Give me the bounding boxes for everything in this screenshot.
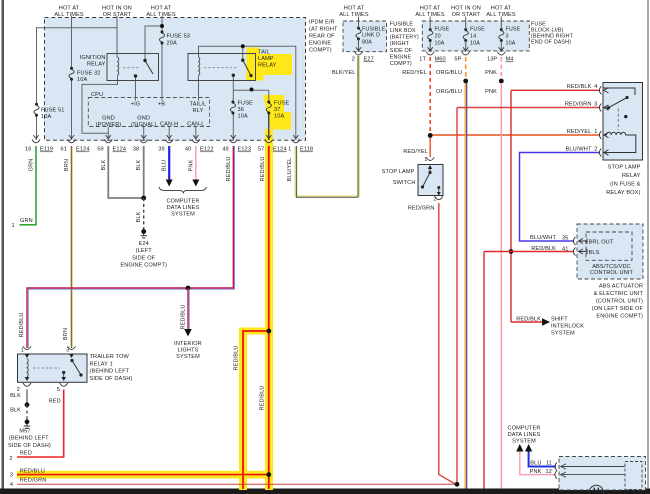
node M57 splice <box>25 402 30 407</box>
svg-text:61: 61 <box>61 147 67 153</box>
svg-text:E119: E119 <box>40 147 53 153</box>
wire BRN pin61 to trailer relay pin3 <box>71 146 73 348</box>
svg-text:INTERLOCK: INTERLOCK <box>551 324 584 330</box>
svg-text:10A: 10A <box>470 41 480 47</box>
svg-text:ALL TIMES: ALL TIMES <box>54 12 84 18</box>
ground M57 <box>24 424 30 428</box>
highlight wire RED/BLU left vertical <box>239 328 273 491</box>
svg-text:SIDE OF DASH): SIDE OF DASH) <box>90 376 133 382</box>
fuse block J/B box <box>422 21 529 51</box>
node fuse53 top junction <box>160 24 164 28</box>
svg-text:SYSTEM: SYSTEM <box>171 212 195 218</box>
svg-text:E118: E118 <box>300 147 313 153</box>
ignition relay coil <box>118 57 119 75</box>
svg-text:E124: E124 <box>113 147 127 153</box>
highlight TAIL LAMP RELAY <box>246 48 292 81</box>
node ORG/BLU splice <box>463 79 468 84</box>
wire hot1 feed to fuse 32 <box>71 16 73 68</box>
ignition relay dashed link <box>123 67 140 69</box>
svg-text:COMPT): COMPT) <box>309 48 332 54</box>
svg-text:SYSTEM: SYSTEM <box>176 354 200 360</box>
wire RED/BLU pin57 red core <box>268 146 270 489</box>
svg-text:LIGHTS: LIGHTS <box>178 348 199 354</box>
fuse F3 <box>499 28 504 42</box>
svg-text:SIDE OF: SIDE OF <box>132 255 156 261</box>
svg-text:16: 16 <box>25 147 31 153</box>
svg-text:(BATTERY): (BATTERY) <box>390 35 419 41</box>
wire branch to ignition relay contact <box>145 26 162 60</box>
svg-text:BLU/WHT: BLU/WHT <box>565 147 591 153</box>
svg-text:13P: 13P <box>487 57 497 63</box>
relay coil horizontal <box>603 132 636 152</box>
svg-text:(ON LEFT SIDE OF: (ON LEFT SIDE OF <box>592 306 644 312</box>
svg-text:FUSE 51: FUSE 51 <box>41 108 65 114</box>
svg-text:CAN-H: CAN-H <box>160 121 178 127</box>
svg-text:TAIL/L: TAIL/L <box>190 102 207 108</box>
wire tail coil return to TAIL/L RLY <box>198 76 200 101</box>
svg-text:3: 3 <box>66 348 69 354</box>
wire BLK pin38 <box>143 146 145 198</box>
svg-text:+IG: +IG <box>131 102 141 108</box>
trailer relay switch <box>62 359 82 378</box>
svg-text:ENGINE: ENGINE <box>390 54 412 60</box>
svg-text:37: 37 <box>274 107 280 113</box>
svg-text:PNK: PNK <box>485 70 497 76</box>
svg-text:RED/YEL: RED/YEL <box>403 149 428 155</box>
wire BLU pin39 CAN-H <box>168 146 170 181</box>
svg-text:FUSIBLE: FUSIBLE <box>390 21 414 27</box>
wire ignition switch output to +IG <box>135 76 137 101</box>
right window border <box>647 0 649 490</box>
svg-text:ENGINE COMPT): ENGINE COMPT) <box>596 314 643 320</box>
svg-text:BLU/YEL: BLU/YEL <box>287 158 293 182</box>
relay dashed link <box>617 109 619 131</box>
svg-text:FUSE: FUSE <box>274 101 290 107</box>
wire RED/GRN from stop switch pin2 <box>439 203 456 484</box>
left window border <box>2 0 5 490</box>
G1: IPDM internals <box>37 16 296 140</box>
node PNK splice <box>499 79 504 84</box>
svg-text:BLK: BLK <box>136 159 142 170</box>
tail lamp relay U2 box <box>188 54 256 81</box>
svg-text:RED/BLU: RED/BLU <box>181 304 187 329</box>
wire RED/BLK pin41 horizontal <box>484 251 574 253</box>
svg-text:RED/GRN: RED/GRN <box>408 206 435 212</box>
svg-text:IGNITION: IGNITION <box>80 55 106 61</box>
wire fuse14 stubs <box>465 17 467 53</box>
trailer relay coil <box>25 354 30 358</box>
wire fuse53 to +B <box>161 44 163 101</box>
stop lamp relay U3 box <box>603 83 643 161</box>
wire fuse51 to pin 16 <box>36 116 38 141</box>
combination meter internal arrows <box>561 467 626 475</box>
svg-text:20A: 20A <box>167 41 177 47</box>
fuse F53 <box>159 31 164 45</box>
stop switch pin1 connector <box>426 157 434 160</box>
svg-text:FUSE: FUSE <box>470 27 485 33</box>
svg-text:FUSE: FUSE <box>506 27 521 33</box>
svg-text:5P: 5P <box>454 57 461 63</box>
wire fuse32 to pin 61 <box>71 80 73 140</box>
wire PNK solid down <box>500 83 502 489</box>
svg-text:BLS: BLS <box>589 250 600 256</box>
svg-text:1: 1 <box>424 157 427 163</box>
fuse F51 <box>34 103 39 117</box>
svg-text:RED/YEL: RED/YEL <box>402 70 427 76</box>
wire tail switch output to fuse row <box>232 75 234 90</box>
svg-text:BLK: BLK <box>101 159 107 170</box>
svg-text:LINK BOX: LINK BOX <box>390 28 416 34</box>
wire PNK combination meter pin12 <box>520 451 556 475</box>
fuse F32 <box>69 67 74 81</box>
svg-text:57: 57 <box>258 147 264 153</box>
svg-text:2: 2 <box>433 197 436 203</box>
tail lamp relay coil <box>199 57 200 75</box>
trailer relay pin connectors <box>23 346 31 349</box>
fuse F14 <box>463 28 468 42</box>
svg-text:COMPT): COMPT) <box>390 61 412 67</box>
svg-text:GND: GND <box>102 116 115 122</box>
svg-text:2: 2 <box>352 57 355 63</box>
svg-text:RED/GRN: RED/GRN <box>565 102 592 108</box>
wire ORG/BLU dashed from 5P <box>465 57 467 80</box>
wire BLU/WHT from relay pin2 <box>520 153 601 242</box>
svg-text:12: 12 <box>546 469 552 475</box>
wire fuse3 stubs <box>500 17 502 53</box>
svg-text:BRN: BRN <box>63 328 69 340</box>
svg-text:10A: 10A <box>238 114 248 120</box>
svg-text:GRN: GRN <box>29 159 35 172</box>
svg-text:E123: E123 <box>238 147 252 153</box>
svg-text:(IN FUSE &: (IN FUSE & <box>610 182 641 188</box>
arrow CAN-L down <box>192 180 199 187</box>
trailer relay dashed link <box>33 367 60 369</box>
svg-text:(LEFT: (LEFT <box>136 248 153 254</box>
svg-text:39: 39 <box>158 147 164 153</box>
svg-text:40: 40 <box>185 147 191 153</box>
svg-text:IPDM E/R: IPDM E/R <box>309 20 335 26</box>
wire RED from trailer pin5 <box>17 390 64 458</box>
svg-text:2: 2 <box>594 147 597 153</box>
svg-text:1: 1 <box>288 147 291 153</box>
svg-text:DATA LINES: DATA LINES <box>167 205 200 211</box>
svg-text:PNK: PNK <box>530 469 542 475</box>
svg-text:14: 14 <box>470 34 476 40</box>
arrow PNK up <box>516 444 523 452</box>
svg-text:ENGINE COMPT): ENGINE COMPT) <box>120 262 167 268</box>
combination meter lamp symbol <box>589 485 603 494</box>
svg-text:STOP LAMP: STOP LAMP <box>382 169 415 175</box>
stop lamp relay internals <box>603 88 636 153</box>
svg-text:SWITCH: SWITCH <box>393 180 416 186</box>
svg-text:OR START: OR START <box>452 12 481 18</box>
wire RED/BLU left branch red core <box>243 331 269 489</box>
wire fuse37 stubs <box>268 90 270 140</box>
fuse F36 <box>230 101 235 115</box>
svg-text:RELAY 1: RELAY 1 <box>90 361 113 367</box>
stop relay connectors <box>599 86 608 94</box>
ABS connectors <box>573 237 587 245</box>
svg-text:TRAILER TOW: TRAILER TOW <box>90 354 130 360</box>
svg-text:RLY: RLY <box>193 108 204 114</box>
svg-text:RELAY BOX): RELAY BOX) <box>606 190 640 196</box>
svg-text:2: 2 <box>9 456 12 462</box>
svg-text:RED/BLU: RED/BLU <box>20 468 45 474</box>
svg-text:RED/BLU: RED/BLU <box>226 156 232 181</box>
svg-text:STOP LAMP: STOP LAMP <box>608 164 641 170</box>
svg-text:ALL TIMES: ALL TIMES <box>415 12 445 18</box>
svg-text:COMPUTER: COMPUTER <box>508 426 541 432</box>
node BLK junction <box>141 196 146 201</box>
svg-text:RED/BLU: RED/BLU <box>234 345 240 370</box>
svg-text:3: 3 <box>594 102 597 108</box>
wire RED/GRN row4 <box>17 483 457 485</box>
node RED/BLK junction <box>509 249 514 254</box>
svg-text:FUSE 53: FUSE 53 <box>167 34 191 40</box>
svg-text:(BEHIND LEFT: (BEHIND LEFT <box>90 369 130 375</box>
svg-text:3: 3 <box>10 473 13 479</box>
svg-text:SHIFT: SHIFT <box>551 317 568 323</box>
svg-text:RED/BLK: RED/BLK <box>567 84 592 90</box>
svg-text:+B: +B <box>158 102 165 108</box>
svg-text:PNK: PNK <box>188 159 194 171</box>
svg-text:E124: E124 <box>76 147 90 153</box>
wire GND POWER stub <box>107 127 109 140</box>
wire battery rail from pin1 to tail relay <box>199 46 296 140</box>
svg-text:RED/BLU: RED/BLU <box>260 385 266 410</box>
wire branch to fuse 51 <box>37 28 118 104</box>
svg-text:49: 49 <box>222 147 228 153</box>
arrow BLU up <box>525 444 532 452</box>
CPU dashed box <box>88 98 209 127</box>
svg-text:CAN-L: CAN-L <box>187 121 204 127</box>
node tail switch output junction <box>250 88 254 92</box>
relay energized dot <box>624 115 627 118</box>
stop lamp switch S1 box <box>418 165 443 196</box>
svg-text:CONTROL UNIT: CONTROL UNIT <box>590 270 634 276</box>
svg-text:SYSTEM: SYSTEM <box>512 439 536 445</box>
svg-text:RED: RED <box>49 398 61 404</box>
svg-text:20: 20 <box>435 34 441 40</box>
svg-text:& ELECTRIC UNIT: & ELECTRIC UNIT <box>594 291 644 297</box>
fuse F37 <box>266 101 271 115</box>
wire fusible link stubs <box>358 17 360 53</box>
tail lamp relay dashed link <box>204 67 237 69</box>
svg-text:OR START: OR START <box>103 12 132 18</box>
svg-text:RED: RED <box>20 451 32 457</box>
svg-text:BRL OUT: BRL OUT <box>589 240 614 246</box>
wire RED/BLK from relay pin4 <box>511 90 600 322</box>
wire RED/BLK down to bottom <box>483 252 485 489</box>
combination meter pin connectors <box>555 463 557 471</box>
svg-text:GND: GND <box>137 116 150 122</box>
svg-text:(POWER): (POWER) <box>96 122 122 128</box>
ground E24 <box>141 234 147 238</box>
svg-text:36: 36 <box>238 107 244 113</box>
svg-text:REAR OF: REAR OF <box>309 34 335 40</box>
svg-text:(RIGHT: (RIGHT <box>390 41 410 47</box>
svg-text:59: 59 <box>97 147 103 153</box>
trailer tow relay U4 box <box>18 354 88 382</box>
svg-text:LAMP: LAMP <box>258 56 274 62</box>
bottom black bar <box>0 489 650 494</box>
svg-text:INTERIOR: INTERIOR <box>174 341 202 347</box>
svg-text:RELAY: RELAY <box>87 62 106 68</box>
fusible link box <box>343 21 387 52</box>
fuse F20 <box>428 28 433 42</box>
ABS inner dashed box <box>586 232 632 260</box>
svg-text:ALL TIMES: ALL TIMES <box>146 12 176 18</box>
svg-text:3: 3 <box>506 34 509 40</box>
svg-text:BLU: BLU <box>530 460 541 466</box>
svg-text:GRN: GRN <box>20 218 33 224</box>
ABS outer dashed box <box>577 224 643 279</box>
fusible link D <box>356 27 361 41</box>
svg-text:(CONTROL UNIT): (CONTROL UNIT) <box>596 299 643 305</box>
wire BLU combination meter pin11 <box>529 451 556 467</box>
svg-text:RED/GRN: RED/GRN <box>20 478 47 484</box>
svg-text:35: 35 <box>562 236 568 242</box>
ignition relay U1 box <box>107 54 159 81</box>
svg-text:ABS ACTUATOR: ABS ACTUATOR <box>599 284 643 290</box>
wire RED/BLU pin57 core (black in box) <box>268 114 270 140</box>
arrow CAN-H down <box>166 180 173 187</box>
svg-text:HOT AT: HOT AT <box>151 6 172 12</box>
svg-text:4: 4 <box>594 84 597 90</box>
svg-text:HOT AT: HOT AT <box>420 6 441 12</box>
svg-text:HOT IN ON: HOT IN ON <box>102 6 132 12</box>
svg-text:SYSTEM: SYSTEM <box>551 331 575 337</box>
svg-text:1: 1 <box>594 129 597 135</box>
svg-text:BLK: BLK <box>10 408 21 414</box>
svg-text:RELAY: RELAY <box>258 63 277 69</box>
svg-text:M57: M57 <box>19 429 30 435</box>
svg-text:FUSE 32: FUSE 32 <box>77 71 101 77</box>
arrow interior lights <box>184 329 192 337</box>
svg-text:10A: 10A <box>41 114 51 120</box>
svg-text:CPU: CPU <box>91 92 103 98</box>
svg-text:M60: M60 <box>435 57 446 63</box>
svg-text:HOT AT: HOT AT <box>491 6 512 12</box>
svg-text:11: 11 <box>546 460 552 466</box>
wire hot3 feed fuse53 <box>161 16 163 32</box>
wire RED/BLU branch to interior lights (blue tracer) <box>188 289 190 330</box>
arrow shift interlock <box>542 318 550 326</box>
wire BLU/YEL pin1 to fusible link (two-tone) <box>295 146 358 196</box>
wire PNK dashed from 13P <box>500 57 502 80</box>
node rail junction at tail relay <box>241 44 245 48</box>
svg-text:FUSE: FUSE <box>435 27 450 33</box>
wire hot2 feed to ignition coil <box>116 16 118 58</box>
wire rail branch to tail relay contact <box>242 46 244 59</box>
svg-text:RELAY: RELAY <box>622 173 641 179</box>
svg-text:ENGINE: ENGINE <box>309 41 331 47</box>
svg-text:BRN: BRN <box>64 159 70 171</box>
svg-text:E124: E124 <box>273 147 287 153</box>
svg-text:RED/BLK: RED/BLK <box>531 246 556 252</box>
svg-text:10A: 10A <box>77 77 87 83</box>
svg-text:COMPUTER: COMPUTER <box>167 199 200 205</box>
wire RED/GRN from relay pin3 down <box>457 108 600 485</box>
wire RED/YEL to stop lamp switch and relay pin1 <box>430 135 600 157</box>
svg-text:4: 4 <box>10 482 13 488</box>
node RED/YEL junction <box>428 133 433 138</box>
svg-text:END OF DASH): END OF DASH) <box>531 39 571 45</box>
svg-text:ALL TIMES: ALL TIMES <box>486 12 516 18</box>
svg-text:DATA LINES: DATA LINES <box>508 432 541 438</box>
wire ORG/BLU solid pair <box>464 83 466 489</box>
wire GND SIGNAL stub <box>143 127 145 140</box>
wire fuse row horizontal <box>233 89 268 91</box>
svg-text:PNK: PNK <box>485 89 497 95</box>
ignition relay switch <box>134 59 153 78</box>
wire RED/BLU pin49 to trailer relay pin1 (blue tracer) <box>28 146 234 348</box>
svg-text:HOT AT: HOT AT <box>59 6 80 12</box>
svg-text:1T: 1T <box>419 57 426 63</box>
wire ignition coil return to pin 59 <box>82 76 118 134</box>
wire fuse20 stubs <box>429 17 431 53</box>
svg-text:SIDE OF: SIDE OF <box>390 48 413 54</box>
svg-text:10A: 10A <box>506 41 516 47</box>
svg-text:ORG/BLU: ORG/BLU <box>436 89 462 95</box>
node yellow branch junction <box>266 329 271 334</box>
svg-text:(AT RIGHT: (AT RIGHT <box>309 27 338 33</box>
svg-text:FUSE: FUSE <box>238 101 254 107</box>
wire CAN-H stub <box>168 127 170 140</box>
tail lamp relay switch <box>232 59 253 78</box>
wire BLK from trailer pin2 <box>26 390 28 405</box>
svg-text:SIDE OF DASH): SIDE OF DASH) <box>8 443 51 449</box>
svg-text:38: 38 <box>133 147 139 153</box>
highlight wire RED/BLU row 3 <box>17 471 269 479</box>
highlight FUSE 37 <box>263 95 291 130</box>
IPDM E/R dashed box <box>45 18 306 141</box>
svg-text:10A: 10A <box>274 114 284 120</box>
brace computer data lines <box>159 187 206 193</box>
svg-text:BLK/YEL: BLK/YEL <box>332 70 356 76</box>
svg-text:HOT IN ON: HOT IN ON <box>451 6 481 12</box>
wire RED/BLU row3 red core <box>17 474 269 476</box>
svg-text:5: 5 <box>57 387 60 393</box>
stop switch pin2 connector <box>435 196 443 199</box>
svg-text:BLK: BLK <box>10 393 21 399</box>
svg-text:BLK: BLK <box>136 211 142 222</box>
wire BLK dashed to ground E24 <box>143 198 145 230</box>
svg-text:1: 1 <box>12 223 15 229</box>
wire PNK pin40 CAN-L <box>195 146 197 181</box>
wire RED/YEL dashed from 1T <box>429 57 431 134</box>
node E24 splice dot <box>141 229 146 234</box>
svg-text:E24: E24 <box>139 241 149 247</box>
svg-text:RED/BLU: RED/BLU <box>19 312 25 337</box>
svg-text:M4: M4 <box>506 57 514 63</box>
svg-text:80A: 80A <box>362 40 372 46</box>
svg-text:41: 41 <box>562 247 568 253</box>
wire BLK dashed to M57 <box>26 405 28 421</box>
svg-text:TAIL: TAIL <box>258 50 270 56</box>
svg-text:E122: E122 <box>200 147 214 153</box>
combination meter inner dashed box <box>625 462 642 490</box>
highlight wire RED/BLU pin57 vertical <box>265 129 273 490</box>
svg-text:ORG/BLU: ORG/BLU <box>436 70 462 76</box>
svg-text:HOT AT: HOT AT <box>344 6 365 12</box>
IPDM pin connectors row <box>32 135 300 143</box>
node interior lights junction <box>186 286 191 291</box>
svg-text:ALL TIMES: ALL TIMES <box>339 12 369 18</box>
svg-text:RED/YEL: RED/YEL <box>567 129 592 135</box>
wire BLK pin59 <box>108 146 143 198</box>
svg-text:RED/BLU: RED/BLU <box>260 156 266 181</box>
